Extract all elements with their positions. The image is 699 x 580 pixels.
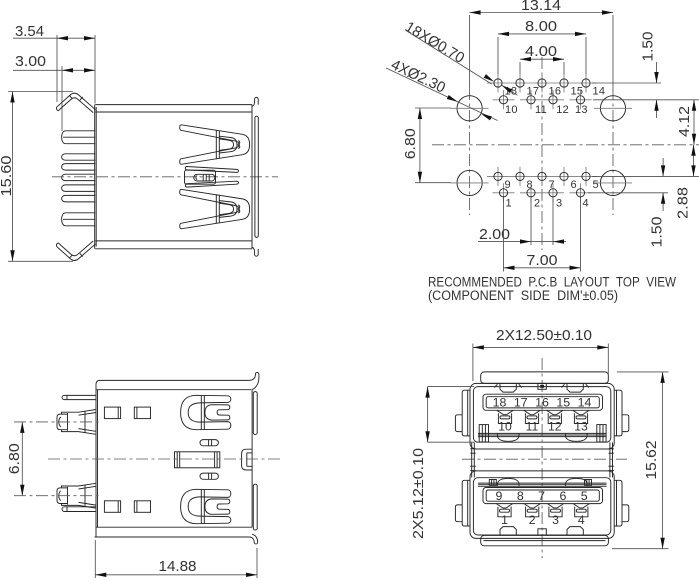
svg-text:18XØ0.70: 18XØ0.70: [402, 18, 467, 67]
pin hole 13: [570, 99, 592, 101]
svg-text:16: 16: [535, 396, 549, 410]
window rectangles (view 3): [104, 407, 120, 419]
pin hole 16: [531, 82, 553, 84]
svg-text:14: 14: [593, 86, 606, 98]
svg-text:14.88: 14.88: [159, 558, 197, 575]
board hook top-right (view 3): [250, 372, 259, 389]
top cap (view 4): [481, 372, 609, 384]
lower port shell (view 4): [470, 471, 614, 539]
comb tooth 2: [62, 154, 96, 160]
centerline (view 3): [48, 458, 283, 460]
mount peg lower (view 3): [62, 483, 97, 488]
upper port tabs: [500, 384, 516, 392]
svg-text:2: 2: [529, 513, 536, 527]
pin hole 11: [520, 99, 542, 101]
svg-text:1.50: 1.50: [648, 217, 665, 248]
svg-text:5: 5: [593, 179, 599, 191]
mount hole bottom-left (4X dia 2.30): [457, 170, 482, 195]
svg-text:1: 1: [506, 197, 512, 209]
spring contact upper (view 3): [181, 395, 228, 429]
lower port shelf and domes: [478, 485, 607, 487]
ears (view 4): [462, 390, 470, 436]
svg-text:4XØ2.30: 4XØ2.30: [388, 56, 448, 96]
svg-text:5: 5: [581, 489, 588, 503]
rear flange (side view): [255, 116, 258, 237]
lower port tabs: [500, 527, 516, 535]
pin hole 4: [570, 192, 592, 194]
center contact detail (side view): [194, 174, 215, 181]
svg-text:15.62: 15.62: [643, 441, 660, 480]
upper port hatch bars: [479, 425, 488, 442]
body outline (side view): [94, 105, 96, 249]
upper port shelf and domes: [478, 432, 607, 434]
lower contacts 1-4: [496, 504, 512, 508]
svg-text:7: 7: [538, 489, 545, 503]
bent tab bottom-left: [57, 244, 96, 261]
pin hole 12: [542, 99, 564, 101]
mount hole centerline left (PCB): [469, 15, 471, 88]
view centerline vertical (view 4): [541, 358, 543, 558]
svg-text:18: 18: [493, 396, 507, 410]
spring contact upper (side view): [181, 125, 250, 165]
center capsule upper (view 3): [200, 440, 218, 446]
lower tongue with pin numbers 9-5: [483, 488, 603, 504]
upper port shell (view 4): [470, 383, 614, 449]
svg-text:6.80: 6.80: [402, 128, 419, 159]
svg-text:2X12.50±0.10: 2X12.50±0.10: [496, 327, 592, 344]
pin hole 18: [487, 82, 509, 84]
body outline (view 3): [100, 379, 250, 381]
view centerline vertical (PCB): [541, 57, 543, 250]
center contact beam upper (side view): [185, 167, 238, 173]
svg-text:2: 2: [534, 197, 540, 209]
svg-text:8: 8: [517, 489, 524, 503]
svg-text:7.00: 7.00: [527, 252, 558, 269]
comb tooth 5: [62, 185, 96, 192]
comb tooth 3: [62, 164, 96, 171]
pin hole 17: [509, 82, 531, 84]
svg-text:12: 12: [556, 104, 569, 116]
upper tongue with pin numbers 18-14: [483, 394, 603, 410]
spring contact lower (side view): [181, 189, 250, 229]
svg-text:12: 12: [548, 420, 562, 434]
svg-text:3: 3: [556, 197, 562, 209]
svg-text:13: 13: [575, 104, 588, 116]
center contact block (side view): [185, 170, 216, 184]
centerline (side view): [52, 176, 278, 178]
mount hole top-right (4X dia 2.30): [600, 96, 625, 121]
svg-text:1.50: 1.50: [639, 32, 656, 62]
comb tooth 1: [62, 131, 96, 144]
svg-text:2X5.12±0.10: 2X5.12±0.10: [410, 448, 427, 539]
comb tooth 6: [62, 195, 96, 202]
svg-text:6: 6: [571, 179, 577, 191]
middle band (view 4): [471, 442, 473, 477]
top cap notch: [538, 383, 546, 389]
svg-text:3.54: 3.54: [15, 23, 44, 40]
terminal pin top-left (view 3): [62, 395, 96, 399]
mount hole top-left (4X dia 2.30): [457, 96, 482, 121]
svg-text:2.00: 2.00: [479, 226, 510, 243]
svg-text:(COMPONENT SIDE DIM'±0.05): (COMPONENT SIDE DIM'±0.05): [428, 288, 618, 303]
mount hole bottom-right (4X dia 2.30): [600, 170, 625, 195]
svg-text:10: 10: [505, 104, 518, 116]
pin hole 5: [575, 175, 597, 177]
pin hole 10: [493, 99, 515, 101]
svg-text:15: 15: [556, 396, 570, 410]
view centerline horizontal (view 4): [462, 458, 627, 460]
rear flange lower segment (view 3): [253, 484, 257, 530]
mount peg upper (view 3): [62, 410, 97, 415]
svg-text:17: 17: [514, 396, 528, 410]
pin hole 1: [493, 192, 515, 194]
pin hole 3: [542, 192, 564, 194]
svg-text:4: 4: [583, 197, 589, 209]
spring contact lower (view 3): [181, 489, 228, 523]
comb tooth 7: [62, 213, 96, 226]
pin hole 2: [520, 192, 542, 194]
board hook bottom-right (side view): [252, 247, 258, 256]
svg-text:13: 13: [574, 420, 588, 434]
lower port hatch rects: [489, 480, 496, 486]
svg-text:2.88: 2.88: [674, 187, 691, 219]
center capsule lower (view 3): [200, 473, 218, 479]
svg-text:8.00: 8.00: [525, 18, 557, 35]
pin hole 6: [553, 175, 575, 177]
svg-text:4.12: 4.12: [676, 106, 693, 137]
svg-text:11: 11: [526, 420, 539, 434]
bottom cap notch: [538, 529, 546, 535]
svg-text:1: 1: [501, 513, 508, 527]
row extension lines right (PCB): [592, 82, 661, 84]
view centerline horizontal (PCB): [432, 144, 699, 146]
comb tooth 4: [62, 174, 96, 180]
board curl bottom-right (view 3): [250, 534, 258, 544]
rear flange upper segment (view 3): [253, 392, 257, 435]
pin hole 15: [553, 82, 575, 84]
pin hole 9: [487, 175, 509, 177]
svg-text:13.14: 13.14: [521, 0, 561, 14]
svg-text:9: 9: [496, 489, 503, 503]
center block (view 3): [175, 452, 220, 468]
right clip (view 3): [242, 449, 253, 470]
pin hole 8: [509, 175, 531, 177]
pin hole 7: [531, 175, 553, 177]
svg-text:11: 11: [535, 104, 547, 116]
svg-text:10: 10: [498, 420, 512, 434]
svg-text:6.80: 6.80: [6, 443, 23, 474]
bent tab top-left: [57, 93, 96, 110]
svg-text:3: 3: [552, 513, 559, 527]
board hook top-right (side view): [252, 97, 258, 106]
upper contacts 10-13: [497, 410, 513, 414]
svg-text:3.00: 3.00: [15, 53, 46, 70]
terminal pin bottom-left (view 3): [62, 507, 96, 512]
svg-text:4: 4: [578, 513, 585, 527]
svg-text:6: 6: [559, 489, 566, 503]
center contact beam lower (side view): [185, 181, 238, 187]
bottom cap (view 4): [481, 535, 609, 545]
mount hole centerline right (PCB): [612, 15, 614, 88]
pin hole 14: [575, 82, 597, 84]
svg-text:14: 14: [578, 396, 592, 410]
